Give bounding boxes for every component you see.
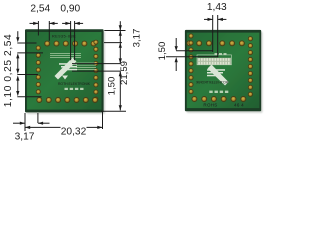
arrowhead 1,50 down to E [175,46,178,51]
arrowhead up onto L2 [16,53,19,58]
extension line E [176,50,213,52]
pads PCB1 left column [36,46,40,94]
arrowhead 20,32 left [25,126,30,129]
svg-text:ROTH ELEKTRONIK: ROTH ELEKTRONIK [195,81,228,85]
svg-text:ROHS: ROHS [203,102,217,107]
arrowhead 21,59 up to top edge [119,31,122,36]
extension line L1 [17,42,36,44]
svg-text:46 4: 46 4 [234,102,244,107]
dims of PCB2: 1,43 top and 1,50 left [166,15,226,71]
extension line bottom-left V1 [24,113,26,131]
arrowhead down onto L4 [16,91,19,96]
svg-text:1,10 0,25 2,54: 1,10 0,25 2,54 [3,34,14,108]
arrowhead 1,43 right [218,18,223,21]
right side of PCB1: 3,17 + 21,59 + 1,50 [72,21,126,111]
svg-text:2,54: 2,54 [30,4,50,15]
SMD footprint PCB2 [197,55,231,65]
extension line 1,43 right [217,15,219,57]
extension line d0_90 left bound [70,21,72,60]
board shadow PCB2 [186,32,262,113]
arrowhead 3,17 right onto V1 [20,122,25,125]
pads PCB2 left column [189,34,193,94]
20,32 dimension line [25,126,103,128]
3,17 arrow lines bottom [13,122,25,124]
svg-text:1,50: 1,50 [107,77,118,96]
svg-text:1,50: 1,50 [157,42,168,61]
silkscreen dashes PCB2 [209,91,228,93]
arrowhead down onto L1 [16,37,19,42]
arrowhead up onto L3 from below [16,75,19,80]
pads PCB2 bottom row [192,97,246,102]
arrowhead 1,43 left [208,18,213,21]
left chain dimension lines [17,31,43,97]
extension line d2_54 right bound [48,21,50,41]
extension line C [72,63,120,65]
arrowhead 1,50 up to F [175,57,178,62]
extension line D [72,70,120,72]
logo PCB1 (Roth Elektronik mark) [55,58,78,80]
svg-text:RE935-08E: RE935-08E [52,34,76,39]
arrowhead down onto L3 [16,69,19,74]
pads PCB1 top row [45,41,96,46]
vertical dim line 1,50 right figure [175,38,177,46]
arrowhead 3,17 left onto V2 [38,122,43,125]
arrowhead 1,50 up to D [119,71,122,76]
dim arrows line top [30,22,39,24]
extension line L4 [17,96,41,98]
arrowhead 3,17 down to top edge [119,25,122,30]
arrowhead 1,50 down to C [119,58,122,63]
extension line d0_90 right bound [74,21,76,60]
extension line bottom for 21,59 [101,110,126,112]
board PCB1 (front view, left) [25,29,104,112]
vertical dimension line 21,59 / 3,17 [119,21,121,63]
pads PCB1 bottom row [37,98,98,103]
svg-text:20,32: 20,32 [61,126,87,137]
svg-text:1,43: 1,43 [207,2,227,13]
extension line L2 [17,52,43,54]
board shadow PCB1 [27,31,106,114]
arrowhead 20,32 right [97,126,102,129]
vertical dim line left chain [17,31,19,39]
svg-text:ROTH ELEKTRONIK: ROTH ELEKTRONIK [58,82,91,86]
pads PCB2 right column [248,37,252,97]
bottom dims of PCB1 [13,112,103,132]
svg-text:3,17: 3,17 [132,29,143,48]
extension line F [166,56,218,58]
extension line A top [104,30,125,32]
svg-text:3,17: 3,17 [15,132,35,143]
1,43 arrow lines [204,18,213,20]
traces PCB1 [50,54,96,70]
pads PCB2 top row [187,41,245,46]
extension line L3 [17,74,38,76]
pads PCB1 right column [94,40,98,101]
logo PCB2 (mirrored Roth mark) [207,65,229,86]
extension line bottom V2 [37,113,39,123]
extension line bottom-right V3 [102,112,104,130]
board PCB2 (back view, right) [185,30,261,111]
silkscreen marks PCB2 upper [215,53,227,55]
extension line d2_54 left bound [37,21,39,36]
extension line 1,43 left [212,15,214,52]
arrowhead 3,17 up to pad row [119,43,122,48]
arrowheads top dims [33,22,38,25]
label 20,32 [61,126,87,136]
svg-text:21,59: 21,59 [119,61,130,85]
extension line B pad row [104,42,122,44]
silkscreen dashes PCB1 [65,88,84,90]
arrowhead 21,59 down to bottom edge [119,105,122,110]
svg-text:0,90: 0,90 [60,4,80,15]
